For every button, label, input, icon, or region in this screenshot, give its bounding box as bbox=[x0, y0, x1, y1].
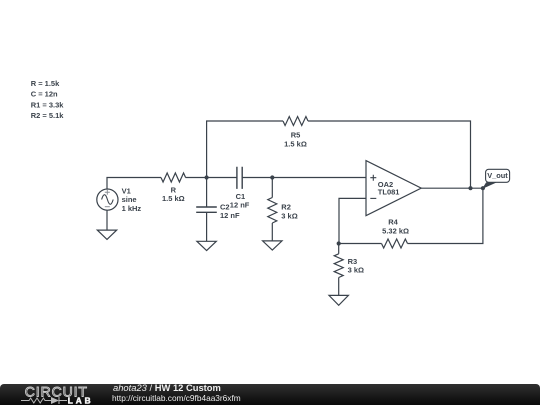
svg-text:R: R bbox=[171, 185, 177, 194]
svg-text:C = 12n: C = 12n bbox=[31, 90, 58, 99]
svg-text:R1 = 3.3k: R1 = 3.3k bbox=[31, 100, 65, 109]
svg-text:12 nF: 12 nF bbox=[220, 211, 240, 220]
wire: R5 to right vertical, down to output bbox=[308, 121, 471, 188]
resistor R5 (zigzag) bbox=[283, 117, 308, 126]
resistor R3 (zigzag vertical) bbox=[334, 254, 343, 278]
wire: node down to C2 bbox=[206, 178, 208, 208]
wire: node down to R2 bbox=[271, 178, 273, 198]
ground (R3) bbox=[329, 295, 348, 305]
wire: V1 bottom to ground bbox=[106, 210, 108, 230]
wire: V1 top to main node bbox=[107, 178, 161, 190]
resistor R2 (zigzag vertical) bbox=[268, 198, 277, 223]
svg-text:R2 = 5.1k: R2 = 5.1k bbox=[31, 111, 65, 120]
wire: op-amp output bbox=[421, 187, 483, 189]
svg-text:R4: R4 bbox=[388, 218, 398, 227]
V_out flag bbox=[482, 169, 510, 189]
wire: R4 to feedback node bbox=[339, 243, 382, 245]
capacitor C1 plates bbox=[237, 167, 242, 189]
svg-text:TL081: TL081 bbox=[378, 187, 400, 196]
svg-text:R2: R2 bbox=[281, 203, 291, 212]
V_out anchor dot bbox=[481, 186, 485, 190]
wire: R2 to ground bbox=[271, 223, 273, 241]
svg-text:V_out: V_out bbox=[487, 171, 508, 180]
svg-text:sine: sine bbox=[122, 195, 137, 204]
wire: C2 to ground bbox=[206, 212, 208, 241]
svg-text:1.5 kΩ: 1.5 kΩ bbox=[284, 139, 307, 148]
ground (R2) bbox=[263, 241, 282, 250]
svg-text:5.32 kΩ: 5.32 kΩ bbox=[382, 227, 409, 236]
wire: C1 right plate to op-amp + input bbox=[242, 177, 366, 179]
voltage source V1 circle bbox=[97, 189, 118, 210]
wire: R to C1 left plate bbox=[186, 177, 237, 179]
op-amp minus symbol bbox=[370, 197, 376, 199]
svg-text:1.5 kΩ: 1.5 kΩ bbox=[162, 194, 185, 203]
wire: node down to R3 bbox=[338, 244, 340, 254]
node A junction (R / C1 / C2 / R5) bbox=[205, 175, 209, 179]
node B junction (C1 / R2 / op-amp +) bbox=[270, 175, 274, 179]
svg-text:C2: C2 bbox=[220, 203, 230, 212]
svg-text:1 kHz: 1 kHz bbox=[122, 204, 142, 213]
footer bar bbox=[0, 384, 540, 405]
svg-text:3 kΩ: 3 kΩ bbox=[348, 266, 364, 275]
capacitor C2 plates bbox=[196, 207, 217, 212]
wire: op-amp minus input to feedback node bbox=[339, 198, 366, 243]
svg-text:R5: R5 bbox=[291, 131, 301, 140]
svg-text:R3: R3 bbox=[348, 257, 358, 266]
resistor R4 (zigzag) bbox=[382, 239, 408, 248]
output junction (R5 vertical) bbox=[468, 186, 472, 190]
svg-text:R = 1.5k: R = 1.5k bbox=[31, 79, 60, 88]
junction dots bbox=[205, 175, 486, 245]
svg-text:LAB: LAB bbox=[68, 395, 94, 405]
svg-text:V1: V1 bbox=[122, 187, 131, 196]
svg-text:12 nF: 12 nF bbox=[230, 201, 250, 210]
op-amp OA2 triangle bbox=[366, 161, 421, 216]
ground (C2) bbox=[197, 241, 216, 250]
op-amp plus symbol bbox=[370, 175, 376, 181]
V1 polarity marks bbox=[105, 190, 110, 207]
wire: node up to R5 feedback line bbox=[207, 121, 283, 178]
feedback node junction (R3 / R4 / op-amp -) bbox=[337, 241, 341, 245]
CircuitLab logo bbox=[0, 384, 110, 405]
svg-text:C1: C1 bbox=[236, 192, 246, 201]
V1 sine wave bbox=[102, 195, 114, 205]
wire: output down to R4 bbox=[408, 188, 483, 243]
ground (V1) bbox=[97, 230, 116, 239]
wire: R3 to ground bbox=[338, 278, 340, 296]
svg-text:3 kΩ: 3 kΩ bbox=[281, 211, 297, 220]
resistor R (zigzag) bbox=[161, 173, 186, 182]
